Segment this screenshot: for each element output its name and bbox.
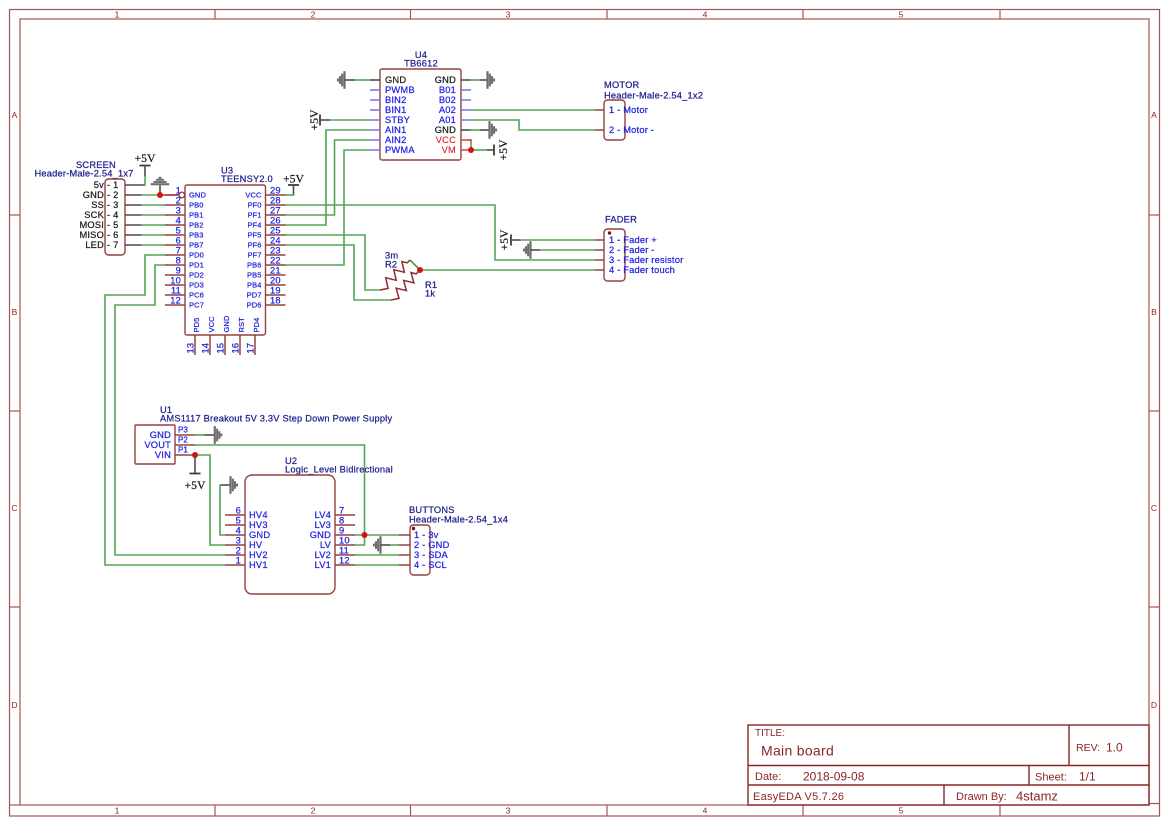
svg-text:A02: A02 (439, 105, 456, 115)
U3 left pin names (189, 191, 206, 310)
wire U3 PF5 to R2 (286, 235, 381, 290)
ground at BUTTONS pin2 (373, 536, 390, 554)
wire MOSI to PB2 (142, 224, 166, 226)
svg-text:PB1: PB1 (189, 211, 203, 220)
svg-text:EasyEDA V5.7.26: EasyEDA V5.7.26 (753, 791, 844, 803)
IC U1 body (135, 425, 175, 464)
svg-text:PD5: PD5 (192, 318, 201, 333)
svg-text:LV3: LV3 (315, 520, 331, 530)
svg-text:4: 4 (703, 806, 708, 816)
svg-text:9: 9 (339, 526, 344, 536)
+5V net flag at VM (487, 139, 510, 160)
svg-text:VCC: VCC (245, 191, 262, 200)
svg-text:GND: GND (249, 530, 270, 540)
svg-text:1 - Fader +: 1 - Fader + (609, 235, 657, 245)
svg-text:PF1: PF1 (247, 211, 261, 220)
svg-text:BIN2: BIN2 (385, 95, 406, 105)
wire LED to PB7 (142, 244, 166, 246)
title block text (753, 728, 1123, 804)
wire U2 pin11 to BUTTONS pin3 (355, 554, 399, 556)
svg-text:- 7: - 7 (107, 240, 118, 250)
svg-text:+5V: +5V (283, 173, 304, 186)
svg-text:AIN2: AIN2 (385, 135, 406, 145)
ground at FADER pin2 (523, 241, 540, 259)
ground at U4 right lower GND (470, 121, 498, 139)
connector FADER pin1 marker (608, 231, 611, 234)
svg-text:Drawn By:: Drawn By: (956, 791, 1007, 803)
U3 bottom pin numbers (186, 343, 256, 354)
IC U2 body (245, 475, 335, 594)
svg-text:10: 10 (170, 276, 181, 286)
svg-text:P1: P1 (178, 446, 188, 455)
+5V net flag below VIN (185, 455, 206, 492)
svg-text:HV3: HV3 (249, 520, 268, 530)
svg-text:P2: P2 (178, 436, 188, 445)
wire red segment to U3 pin1 (160, 194, 179, 196)
svg-text:A: A (12, 110, 18, 120)
svg-text:B: B (1151, 307, 1157, 317)
connector FADER pins (595, 240, 604, 270)
frame row letters left (11, 110, 17, 710)
svg-text:1: 1 (115, 10, 120, 20)
svg-text:D: D (1151, 700, 1157, 710)
U1 pin names (144, 430, 171, 460)
connector BUTTONS pin1 marker (412, 527, 415, 530)
svg-text:12: 12 (339, 556, 350, 566)
svg-text:12: 12 (170, 296, 181, 306)
svg-text:HV4: HV4 (249, 510, 268, 520)
svg-text:PD3: PD3 (189, 281, 204, 290)
svg-text:3 - Fader resistor: 3 - Fader resistor (609, 255, 683, 265)
U3 pin 1 bubble (179, 192, 185, 198)
svg-text:Date:: Date: (755, 771, 781, 783)
svg-text:PD2: PD2 (189, 271, 204, 280)
U2 left pin stubs (225, 515, 245, 565)
U3 bottom pin stubs (195, 335, 255, 355)
svg-text:Main board: Main board (761, 743, 834, 759)
resistor R1 (391, 271, 419, 300)
svg-text:1.0: 1.0 (1106, 741, 1123, 755)
svg-text:27: 27 (270, 206, 281, 216)
svg-text:PWMA: PWMA (385, 145, 415, 155)
svg-text:2 - GND: 2 - GND (414, 540, 450, 550)
svg-text:2: 2 (176, 196, 181, 206)
svg-text:B02: B02 (439, 95, 456, 105)
wire U1 P3 to ground (195, 434, 205, 436)
svg-text:3: 3 (506, 10, 511, 20)
svg-text:BUTTONS: BUTTONS (409, 505, 455, 515)
svg-text:16: 16 (231, 343, 241, 354)
svg-text:STBY: STBY (385, 115, 410, 125)
wire VM junction to +5V (471, 149, 487, 151)
ground at U2 GND pin4 (220, 476, 238, 494)
wire ground to U2 pin4 (220, 485, 225, 535)
svg-text:Header-Male-2.54_1x2: Header-Male-2.54_1x2 (604, 91, 703, 101)
svg-text:19: 19 (270, 286, 281, 296)
wire GND to FADER pin2 (540, 249, 595, 251)
U2 right pin numbers (339, 506, 350, 566)
wire AIN1 to U3 PF4 (286, 130, 371, 225)
svg-text:MOTOR: MOTOR (604, 80, 640, 90)
connector MOTOR pin texts (609, 105, 654, 135)
U4 right pin stubs (461, 80, 471, 150)
frame row ticks right (1149, 215, 1160, 607)
U3 right pin names (245, 191, 262, 310)
U3 left pin stubs (165, 195, 185, 305)
svg-text:C: C (1151, 503, 1157, 513)
svg-text:AMS1117 Breakout 5V 3.3V Step: AMS1117 Breakout 5V 3.3V Step Down Power… (160, 414, 392, 424)
wire U1 VOUT to U2 node (195, 445, 365, 535)
frame row ticks left (10, 215, 21, 607)
svg-text:TEENSY2.0: TEENSY2.0 (221, 174, 273, 184)
svg-text:14: 14 (201, 343, 211, 354)
svg-text:+5V: +5V (497, 139, 510, 160)
+5V net flag at FADER pin1 (498, 229, 521, 250)
ground symbol above node (151, 177, 170, 195)
svg-text:1 - Motor: 1 - Motor (609, 105, 648, 115)
U2 right pin names (310, 510, 332, 570)
svg-text:25: 25 (270, 226, 281, 236)
svg-text:17: 17 (246, 343, 256, 354)
svg-text:GND: GND (435, 75, 456, 85)
svg-text:23: 23 (270, 246, 281, 256)
frame row letters right (1151, 110, 1157, 710)
svg-text:7: 7 (176, 246, 181, 256)
svg-text:2: 2 (236, 546, 241, 556)
svg-text:LED: LED (85, 240, 104, 250)
svg-text:28: 28 (270, 196, 281, 206)
U3 bottom pin names (192, 315, 261, 332)
svg-text:+5V: +5V (308, 109, 321, 130)
svg-text:SS: SS (91, 200, 104, 210)
wire MISO to PB3 (142, 234, 166, 236)
+5V net flag at SCREEN pin 1 (135, 152, 156, 186)
svg-text:PF6: PF6 (247, 241, 261, 250)
svg-text:GND: GND (150, 430, 171, 440)
svg-text:11: 11 (339, 546, 349, 556)
svg-text:LV2: LV2 (315, 550, 331, 560)
svg-text:PF5: PF5 (247, 231, 261, 240)
svg-text:GND: GND (385, 75, 406, 85)
IC U4 body (380, 69, 461, 160)
svg-text:LV: LV (320, 540, 332, 550)
svg-text:4: 4 (176, 216, 181, 226)
svg-text:R2: R2 (385, 260, 397, 270)
svg-text:TB6612: TB6612 (404, 59, 438, 69)
svg-text:5: 5 (176, 226, 181, 236)
svg-text:1k: 1k (425, 289, 435, 299)
wire A01 to MOTOR pin2 (471, 120, 595, 130)
svg-text:VOUT: VOUT (144, 440, 171, 450)
svg-text:8: 8 (339, 516, 344, 526)
svg-text:+5V: +5V (135, 152, 156, 165)
svg-text:PC6: PC6 (189, 291, 204, 300)
U2 right pin stubs (335, 515, 355, 565)
IC U3 body (185, 185, 266, 335)
frame column numbers bottom (115, 806, 904, 816)
svg-text:MISO: MISO (79, 230, 104, 240)
svg-text:5: 5 (236, 516, 241, 526)
frame column numbers top (115, 10, 904, 20)
U1 pin numbers (178, 426, 188, 455)
svg-text:3: 3 (506, 806, 511, 816)
svg-text:15: 15 (216, 343, 226, 354)
connector BUTTONS body (410, 525, 430, 575)
U3 right pin numbers (270, 186, 281, 306)
svg-text:3: 3 (236, 536, 241, 546)
svg-text:22: 22 (270, 256, 281, 266)
junction node 3v3 (362, 532, 368, 538)
svg-text:4: 4 (236, 526, 241, 536)
svg-text:LV4: LV4 (315, 510, 331, 520)
svg-text:A: A (1151, 110, 1157, 120)
ground at U4 left GND (337, 71, 370, 89)
svg-text:- 2: - 2 (107, 190, 118, 200)
svg-text:PB4: PB4 (247, 281, 261, 290)
svg-text:Header-Male-2.54_1x7: Header-Male-2.54_1x7 (34, 169, 133, 179)
svg-text:BIN1: BIN1 (385, 105, 406, 115)
svg-text:1: 1 (115, 806, 120, 816)
svg-text:7: 7 (339, 506, 344, 516)
svg-text:2 - Fader -: 2 - Fader - (609, 245, 655, 255)
junction node VIN (192, 452, 198, 458)
connector FADER body (604, 229, 625, 281)
connector BUTTONS pins (399, 535, 410, 565)
title block (748, 725, 1149, 805)
U1 pin stubs (175, 435, 195, 455)
connector SCREEN body (105, 179, 125, 255)
junction node fader touch (417, 267, 423, 273)
connector MOTOR pins (595, 110, 604, 130)
svg-text:VCC: VCC (436, 135, 456, 145)
svg-text:3: 3 (176, 206, 181, 216)
svg-text:REV:: REV: (1076, 742, 1100, 754)
connector FADER pin texts (609, 235, 683, 275)
svg-text:1/1: 1/1 (1079, 770, 1096, 784)
svg-text:2018-09-08: 2018-09-08 (803, 770, 865, 784)
U4 right pin names (435, 75, 456, 155)
frame column ticks top (215, 10, 1000, 20)
svg-text:26: 26 (270, 216, 281, 226)
svg-text:- 3: - 3 (107, 200, 118, 210)
frame column ticks bottom (10, 804, 1160, 817)
svg-text:PB0: PB0 (189, 201, 203, 210)
connector MOTOR body (604, 100, 625, 140)
svg-text:5v: 5v (94, 180, 104, 190)
svg-text:PB5: PB5 (247, 271, 261, 280)
wire U2 pin10 LV to node (355, 535, 365, 545)
wire ground to BUTTONS pin2 (390, 544, 399, 546)
svg-text:4 - SCL: 4 - SCL (414, 560, 447, 570)
wire SCREEN pin2 to GND junction (142, 194, 161, 196)
svg-text:B: B (12, 307, 18, 317)
svg-text:PD7: PD7 (247, 291, 262, 300)
U4 left pin stubs (370, 80, 380, 150)
svg-text:HV: HV (249, 540, 263, 550)
svg-text:PD1: PD1 (189, 261, 204, 270)
connector SCREEN pins (125, 185, 145, 245)
ground at U1 P3 (205, 426, 223, 444)
svg-text:HV1: HV1 (249, 560, 268, 570)
svg-text:PD4: PD4 (252, 318, 261, 333)
wire U3 PF6 to R1 (286, 245, 392, 300)
svg-text:13: 13 (186, 343, 196, 354)
svg-text:1 - 3v: 1 - 3v (414, 530, 439, 540)
svg-text:GND: GND (222, 315, 231, 332)
+5V net flag at U3 pin29 VCC (283, 173, 304, 196)
svg-text:4: 4 (703, 10, 708, 20)
wire PWMA to U3 PB6 (286, 150, 371, 265)
svg-text:SCK: SCK (84, 210, 104, 220)
svg-text:P3: P3 (178, 426, 188, 435)
svg-text:PD0: PD0 (189, 251, 204, 260)
U2 left pin names (249, 510, 270, 570)
svg-text:PB7: PB7 (189, 241, 203, 250)
ground at U4 right top GND (470, 71, 496, 89)
svg-text:6: 6 (176, 236, 181, 246)
svg-text:AIN1: AIN1 (385, 125, 406, 135)
svg-text:24: 24 (270, 236, 281, 246)
svg-text:PF7: PF7 (247, 251, 261, 260)
junction node GND (157, 192, 163, 198)
svg-text:- 4: - 4 (107, 210, 118, 220)
U2 left pin numbers (236, 506, 241, 566)
svg-text:10: 10 (339, 536, 350, 546)
svg-text:GND: GND (435, 125, 456, 135)
svg-text:PC7: PC7 (189, 301, 204, 310)
wire AIN2 to U3 PF1 (286, 140, 371, 215)
svg-text:5: 5 (899, 10, 904, 20)
wire VCC to VM junction (468, 140, 471, 143)
svg-text:2: 2 (311, 806, 316, 816)
+5V net flag at STBY (308, 109, 330, 130)
svg-text:4stamz: 4stamz (1016, 789, 1058, 804)
wire U2 pin9 to BUTTONS pin1 (355, 534, 399, 536)
svg-text:+5V: +5V (185, 479, 206, 492)
svg-text:4 - Fader touch: 4 - Fader touch (609, 265, 675, 275)
svg-text:GND: GND (83, 190, 104, 200)
svg-text:VIN: VIN (155, 450, 171, 460)
svg-text:2: 2 (311, 10, 316, 20)
svg-text:11: 11 (171, 286, 181, 296)
svg-text:3 - SDA: 3 - SDA (414, 550, 449, 560)
svg-text:B01: B01 (439, 85, 456, 95)
svg-text:2 - Motor -: 2 - Motor - (609, 125, 654, 135)
svg-text:- 6: - 6 (107, 230, 118, 240)
svg-text:D: D (11, 700, 17, 710)
connector SCREEN pin texts (79, 180, 118, 250)
junction node VM (468, 147, 474, 153)
wire +5V to STBY (330, 119, 370, 121)
svg-text:PB6: PB6 (247, 261, 261, 270)
wire +5V to FADER pin1 (521, 239, 596, 241)
svg-text:PF4: PF4 (247, 221, 261, 230)
wire SS to PB0 (142, 204, 166, 206)
svg-text:- 5: - 5 (107, 220, 118, 230)
svg-text:20: 20 (270, 276, 281, 286)
svg-text:RST: RST (237, 317, 246, 333)
wire SCK to PB1 (142, 214, 166, 216)
svg-text:29: 29 (270, 186, 281, 196)
svg-text:- 1: - 1 (107, 180, 118, 190)
svg-text:1: 1 (176, 186, 181, 196)
wire R2 to junction (410, 260, 420, 270)
svg-text:PD6: PD6 (247, 301, 262, 310)
svg-text:Header-Male-2.54_1x4: Header-Male-2.54_1x4 (409, 515, 508, 525)
svg-text:+5V: +5V (498, 229, 511, 250)
svg-text:1: 1 (236, 556, 241, 566)
wire resistor junction to FADER pin4 (420, 269, 595, 271)
svg-text:21: 21 (270, 266, 281, 276)
svg-text:A01: A01 (439, 115, 456, 125)
svg-text:Logic_Level Bidirectional: Logic_Level Bidirectional (285, 465, 393, 475)
svg-text:5: 5 (899, 806, 904, 816)
svg-text:6: 6 (236, 506, 241, 516)
wire U3 PD0 to U2 HV1 (105, 255, 225, 565)
resistor R2 (380, 260, 410, 290)
wire A02 to MOTOR pin1 (471, 109, 595, 111)
wire U3 PD1 to U2 HV2 (115, 265, 225, 555)
svg-text:PB3: PB3 (189, 231, 203, 240)
svg-text:9: 9 (176, 266, 181, 276)
svg-text:8: 8 (176, 256, 181, 266)
svg-text:PWMB: PWMB (385, 85, 415, 95)
wire U1 VIN to U2 HV (195, 455, 225, 545)
svg-text:GND: GND (189, 191, 206, 200)
U3 left pin numbers (170, 186, 181, 306)
wire U2 pin12 to BUTTONS pin4 (355, 564, 399, 566)
connector BUTTONS pin texts (414, 530, 450, 570)
svg-text:LV1: LV1 (315, 560, 331, 570)
svg-text:HV2: HV2 (249, 550, 268, 560)
svg-text:Sheet:: Sheet: (1035, 772, 1067, 784)
svg-text:C: C (11, 503, 17, 513)
svg-text:VM: VM (442, 145, 456, 155)
wire U3 PF0 to FADER pin3 (286, 205, 596, 260)
svg-text:TITLE:: TITLE: (755, 728, 785, 739)
svg-text:GND: GND (310, 530, 331, 540)
svg-text:FADER: FADER (605, 215, 637, 225)
svg-text:18: 18 (270, 296, 281, 306)
svg-text:VCC: VCC (207, 316, 216, 333)
U4 left pin names (385, 75, 415, 155)
U3 right pin stubs (266, 195, 286, 305)
svg-text:PB2: PB2 (189, 221, 203, 230)
svg-text:MOSI: MOSI (79, 220, 104, 230)
svg-text:PF0: PF0 (247, 201, 261, 210)
